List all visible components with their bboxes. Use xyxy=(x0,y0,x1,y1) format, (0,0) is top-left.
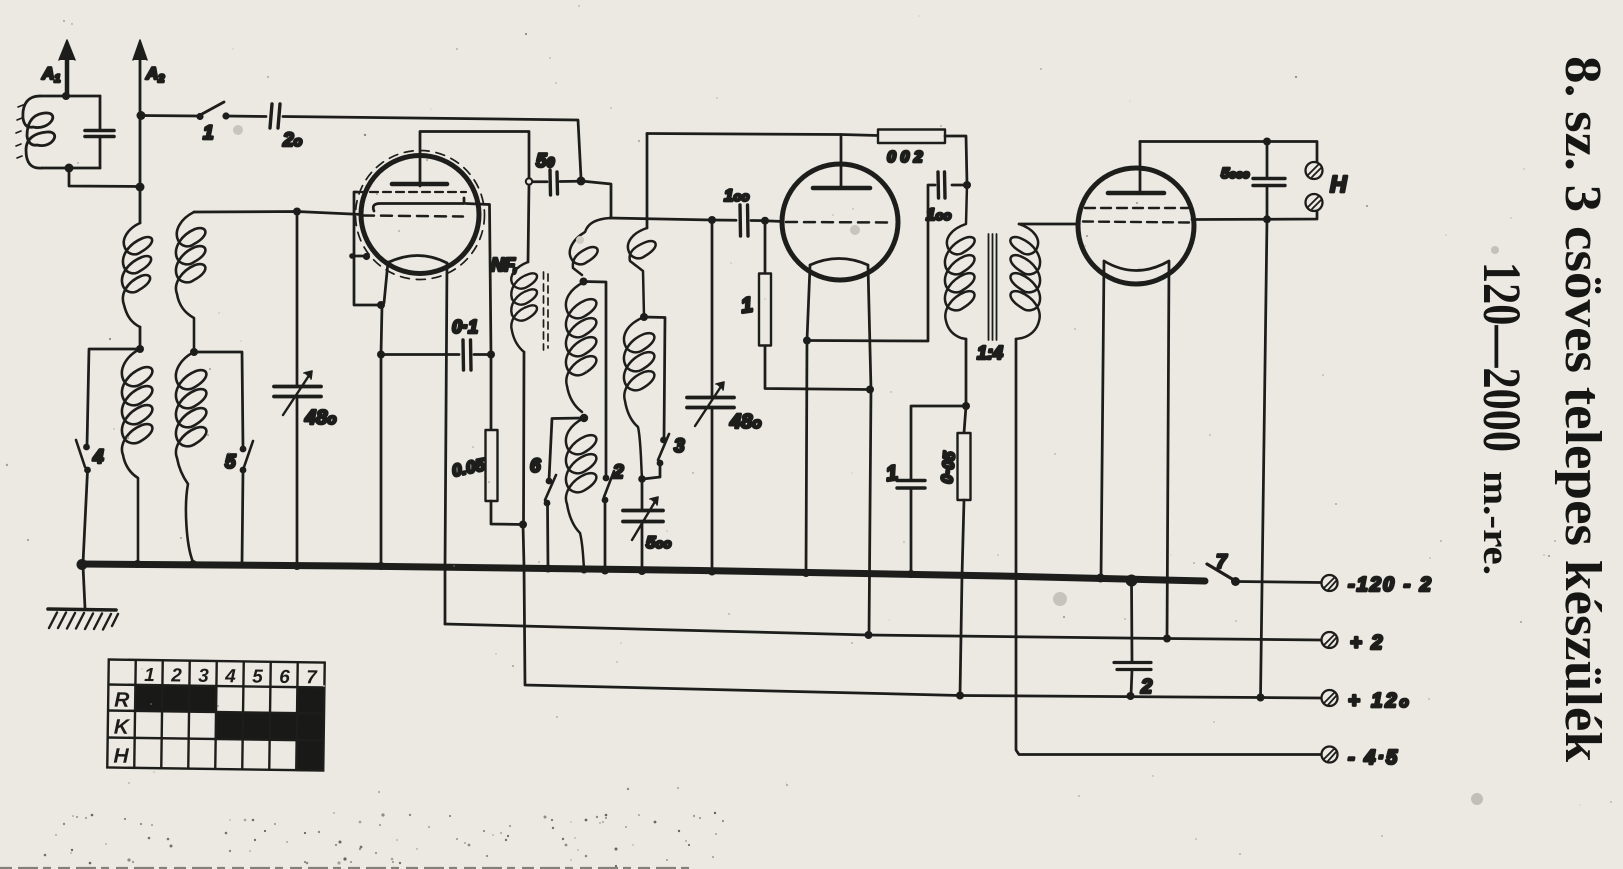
scan artifacts: smudges xyxy=(233,125,1499,805)
NF choke entry xyxy=(528,185,529,262)
wire L2a to tap node xyxy=(139,327,142,349)
resistor 0.05 (left) xyxy=(486,430,498,501)
wire tank to A2 xyxy=(69,168,139,187)
wire ground lead xyxy=(83,566,85,608)
transformer 1:4 primary xyxy=(945,185,975,339)
wire switch5 to bus xyxy=(242,471,243,563)
terminal -120-2 xyxy=(1322,575,1338,591)
wire V2 plate top run xyxy=(647,134,878,136)
wire 2uF bottom xyxy=(1131,670,1132,696)
wire switch2 to bus xyxy=(604,501,607,570)
node 480R bus xyxy=(708,568,716,576)
wire 0.05 bottom to +120 drop xyxy=(491,501,523,525)
wire 5000 node down to +120 xyxy=(1261,219,1268,697)
node R1/cathode junction xyxy=(866,386,874,394)
wire grid into V2 xyxy=(765,219,783,223)
svg-text:NF,: NF, xyxy=(491,255,518,275)
tube V1 filament dome xyxy=(387,256,447,264)
tube V3 grid dashed line 1 xyxy=(1085,207,1188,209)
wire V1 filament left down xyxy=(381,262,388,565)
capacitor 5000 xyxy=(1253,142,1285,220)
node V1 cathode-return junction xyxy=(377,301,385,309)
node 0.1 right / grid lead xyxy=(487,351,495,359)
ground bus (thick) xyxy=(81,564,1205,581)
terminal -4.5 xyxy=(1322,747,1338,763)
wire 1:4 secondary bottom to -4.5 xyxy=(1016,339,1321,755)
tube V1 left electrode return xyxy=(354,192,378,305)
wire plate1 topcap run xyxy=(420,132,529,187)
tube V2 anode plate xyxy=(813,186,870,191)
node L3b bus xyxy=(189,560,197,568)
switch 7 xyxy=(1207,564,1240,586)
svg-text:+ 12o: + 12o xyxy=(1348,690,1412,712)
node switch6 bus xyxy=(544,565,552,573)
node 5000 bottom xyxy=(1263,215,1271,223)
wire 1:4 secondary top to V3 grid xyxy=(1019,223,1078,226)
wire switch3 to 500 junction xyxy=(643,464,660,479)
capacitor 0.1 xyxy=(381,340,491,370)
capacitor 100 (left) xyxy=(740,205,765,236)
wire switch7 to terminal xyxy=(1236,582,1322,583)
reaction coil L5 (x641) xyxy=(624,228,656,478)
wire tap upper to switch2 xyxy=(584,282,606,478)
svg-text:5oo: 5oo xyxy=(646,533,671,552)
svg-text:m.-re.: m.-re. xyxy=(1475,471,1516,575)
tube V3 anode plate xyxy=(1108,191,1164,196)
tube V1 screen dash line xyxy=(357,191,466,193)
node L4 tap lower xyxy=(580,414,588,422)
resistor 0.05 (right) xyxy=(958,433,971,500)
wire 1uF branch xyxy=(911,406,966,479)
svg-text:- 4·5: - 4·5 xyxy=(1348,747,1399,769)
node 1uF junction xyxy=(962,402,970,410)
wire R1 bottom to cathode xyxy=(765,346,868,390)
node A2 junction lower xyxy=(136,183,145,192)
tube V2 filament dome xyxy=(810,259,868,266)
node 0.1 left xyxy=(377,351,385,359)
tube V2 grid dashed line xyxy=(786,221,893,224)
wire 480R bottom vertical xyxy=(711,408,714,571)
NF core dashes xyxy=(544,272,549,350)
wire tap lower to switch6 xyxy=(549,418,584,480)
node V3 fil-right on +2 xyxy=(1163,635,1171,643)
wire 0.05R bottom crossing bus to +120 xyxy=(960,500,964,696)
wire NF bottom down xyxy=(522,352,525,524)
wire top bus from A2 xyxy=(140,114,199,117)
variable capacitor 500 xyxy=(623,497,663,540)
tube V2 envelope xyxy=(782,164,898,280)
svg-text:7: 7 xyxy=(1216,552,1228,573)
wire y219 to V2 grid xyxy=(610,218,736,220)
wire V3 filament right down (to +2) xyxy=(1167,262,1169,639)
wire junction to 500 xyxy=(641,479,644,509)
node 480L top xyxy=(293,208,301,216)
capacitor 50 xyxy=(533,170,578,195)
svg-text:48o: 48o xyxy=(729,411,761,433)
wire switch6 to bus xyxy=(546,504,549,568)
switch 6 xyxy=(544,475,556,506)
node V2 grid / R1 xyxy=(761,217,769,225)
wire +2 line xyxy=(445,624,1321,640)
switch table xyxy=(107,659,325,771)
node V2 fil-left / 100R return xyxy=(803,337,811,345)
svg-text:4: 4 xyxy=(92,447,104,468)
node 480L bus xyxy=(293,562,301,570)
svg-text:48o: 48o xyxy=(304,407,336,429)
svg-text:R: R xyxy=(114,689,130,712)
table filled cells xyxy=(134,685,324,772)
tube V3 envelope xyxy=(1078,168,1194,284)
antenna A2 lead xyxy=(133,40,147,223)
svg-text:1: 1 xyxy=(203,123,214,144)
svg-text:1oo: 1oo xyxy=(926,205,951,224)
tank capacitor C1 xyxy=(85,96,114,168)
wire V2 filament right down (to +2) xyxy=(868,266,871,635)
wire 480L top vertical xyxy=(296,212,299,386)
detector grid coil L4 (tapped, x582) xyxy=(566,218,610,568)
node tank top xyxy=(62,92,70,100)
node tank bottom xyxy=(65,164,74,173)
node 500 bus xyxy=(638,567,646,575)
ground symbol xyxy=(48,609,118,630)
node V2 fil-left bus xyxy=(802,569,810,577)
switch 2 xyxy=(602,471,614,503)
antenna coil L2a (upper, col1) xyxy=(122,223,152,327)
tube V1 grid dashed line xyxy=(363,216,463,217)
antenna tank coil L1 xyxy=(23,96,55,168)
wire V3 grid out to H xyxy=(1192,211,1317,220)
wire 500 to bus xyxy=(641,522,644,570)
scan artifacts: bottom edge band xyxy=(0,867,690,869)
node 50pF junction xyxy=(577,177,586,186)
stub V1 left pin xyxy=(349,253,370,260)
node 5000 top xyxy=(1263,138,1271,146)
terminal H bottom xyxy=(1306,194,1323,211)
tube V1 dashed envelope xyxy=(356,151,485,280)
svg-text:2: 2 xyxy=(612,462,624,483)
tube V1 anode plate xyxy=(392,182,447,187)
svg-text:2: 2 xyxy=(170,665,182,686)
terminal +120 xyxy=(1322,690,1338,706)
svg-text:H: H xyxy=(1330,171,1347,197)
wire V2 filament left down xyxy=(806,266,810,573)
svg-text:+ 2: + 2 xyxy=(1350,632,1384,654)
terminal +2 xyxy=(1322,632,1338,648)
capacitor 20 xyxy=(270,104,280,128)
antenna A1 lead xyxy=(59,40,75,97)
wire 1:4 primary bottom xyxy=(964,339,966,433)
wire 50-junction to detector coil xyxy=(581,181,611,218)
antenna coil L3b (lower, col2) xyxy=(176,352,207,562)
node 5000 on +120 xyxy=(1257,694,1265,702)
node L4 bus xyxy=(580,566,588,574)
node NF/0.05 junction xyxy=(519,521,527,529)
node A2 top wire junction xyxy=(137,111,146,120)
svg-text:-120 - 2: -120 - 2 xyxy=(1348,574,1433,596)
tube V3 top cap lead xyxy=(1139,142,1142,194)
svg-text:6: 6 xyxy=(530,456,541,477)
svg-text:0·1: 0·1 xyxy=(452,317,478,337)
variable capacitor 480 (right) xyxy=(687,382,734,426)
svg-text:3: 3 xyxy=(198,666,209,687)
tube V3 filament arc xyxy=(1104,261,1169,271)
node L5 tap xyxy=(640,313,648,321)
wire V1 filament right down (to +2) xyxy=(445,263,447,624)
svg-text:0 0 2: 0 0 2 xyxy=(887,149,923,166)
node switch2 bus xyxy=(601,567,609,575)
capacitor 2 xyxy=(1114,663,1151,670)
svg-text:1:4: 1:4 xyxy=(977,343,1003,363)
wire C20 to corner x578 xyxy=(283,117,581,179)
wire 480L bottom vertical xyxy=(296,397,299,566)
svg-text:5: 5 xyxy=(225,452,236,473)
terminal H top xyxy=(1306,162,1323,179)
switch 4 xyxy=(76,440,91,473)
tank core dashes xyxy=(16,105,23,158)
node 0.05R on +120 xyxy=(956,692,964,700)
node open circle plate1 xyxy=(526,178,532,184)
tube V1 envelope xyxy=(361,156,479,274)
svg-text:50: 50 xyxy=(536,151,555,172)
wire +120 feed crossing bus xyxy=(523,525,1321,699)
variable capacitor 480 (left) xyxy=(274,371,321,415)
wire V2 plate feed down to reaction coil xyxy=(646,134,649,229)
node 1uF bus xyxy=(907,570,915,578)
antenna coil L3a (upper, col2) xyxy=(176,212,205,350)
svg-text:5: 5 xyxy=(252,667,263,688)
tube V1 grid lead line xyxy=(373,198,489,211)
node V1 filament-left bus xyxy=(377,562,385,570)
wire V1 grid vertical xyxy=(490,205,492,431)
wire switch1 to C20 xyxy=(226,115,266,118)
svg-text:120—2000: 120—2000 xyxy=(1472,262,1532,452)
node 2uF on +120 xyxy=(1127,692,1135,700)
svg-text:0·05: 0·05 xyxy=(939,450,959,484)
resistor 0.02 xyxy=(878,130,945,144)
resistor 1 (grid leak) xyxy=(759,274,771,346)
node 480R top xyxy=(708,216,716,224)
node V2 fil-right on +2 xyxy=(865,631,873,639)
NF choke coil xyxy=(511,262,537,352)
svg-text:3: 3 xyxy=(674,436,685,457)
tank bottom wire xyxy=(42,167,100,170)
capacitor 1 xyxy=(897,481,925,489)
svg-text:K: K xyxy=(114,716,131,739)
switch 3 xyxy=(657,434,669,466)
node 100R / 1:4 top xyxy=(963,181,971,189)
wire tap to switch4 xyxy=(87,349,140,446)
table grid xyxy=(107,659,324,770)
switch 5 xyxy=(240,441,253,473)
transformer 1:4 secondary xyxy=(1010,224,1040,339)
tube V3 grid dashed line 2 xyxy=(1083,222,1190,223)
node col1 tap xyxy=(136,345,144,353)
svg-text:H: H xyxy=(113,745,129,768)
node col2 tap xyxy=(190,348,198,356)
node 500 top junction xyxy=(638,475,646,483)
node V3 fil-left bus xyxy=(1096,574,1105,583)
wire switch4 to bus xyxy=(83,471,88,563)
svg-text:1: 1 xyxy=(144,665,155,686)
wire tap to switch3 xyxy=(644,317,665,439)
wire V3 filament left down xyxy=(1101,262,1104,578)
antenna coil L2b (lower, col1) xyxy=(122,349,153,563)
svg-text:2: 2 xyxy=(1140,676,1152,698)
table row labels R K H xyxy=(113,689,131,768)
tube V2 top cap lead xyxy=(840,135,843,189)
svg-text:2o: 2o xyxy=(282,130,303,151)
svg-text:7: 7 xyxy=(306,667,318,688)
svg-text:8. sz. 3 csöves telepes készül: 8. sz. 3 csöves telepes készülék xyxy=(1554,56,1611,762)
wire 1uF to bus xyxy=(910,488,913,574)
wire 2uF top xyxy=(1130,581,1133,661)
svg-text:1oo: 1oo xyxy=(724,186,749,205)
wire V3 topcap run xyxy=(1140,142,1317,163)
node L2b bus xyxy=(134,560,142,568)
switch 1 xyxy=(196,102,229,120)
tank top wire xyxy=(40,95,100,98)
capacitor 100 (right) xyxy=(810,172,967,341)
transformer 1:4 core xyxy=(989,234,997,340)
node L4 tap upper xyxy=(580,278,588,286)
wire grid wire y211 xyxy=(194,212,362,215)
wire R1 top xyxy=(764,221,767,273)
svg-text:6: 6 xyxy=(279,667,290,688)
table column headers 1-7 xyxy=(144,665,318,688)
node bus left end xyxy=(77,559,88,570)
wire 480R vertical xyxy=(711,220,714,396)
svg-text:4: 4 xyxy=(224,666,236,687)
wire tap to switch5 xyxy=(194,352,243,448)
node 2uF bus xyxy=(1126,575,1138,587)
wire 0.02 to corner xyxy=(945,136,967,184)
